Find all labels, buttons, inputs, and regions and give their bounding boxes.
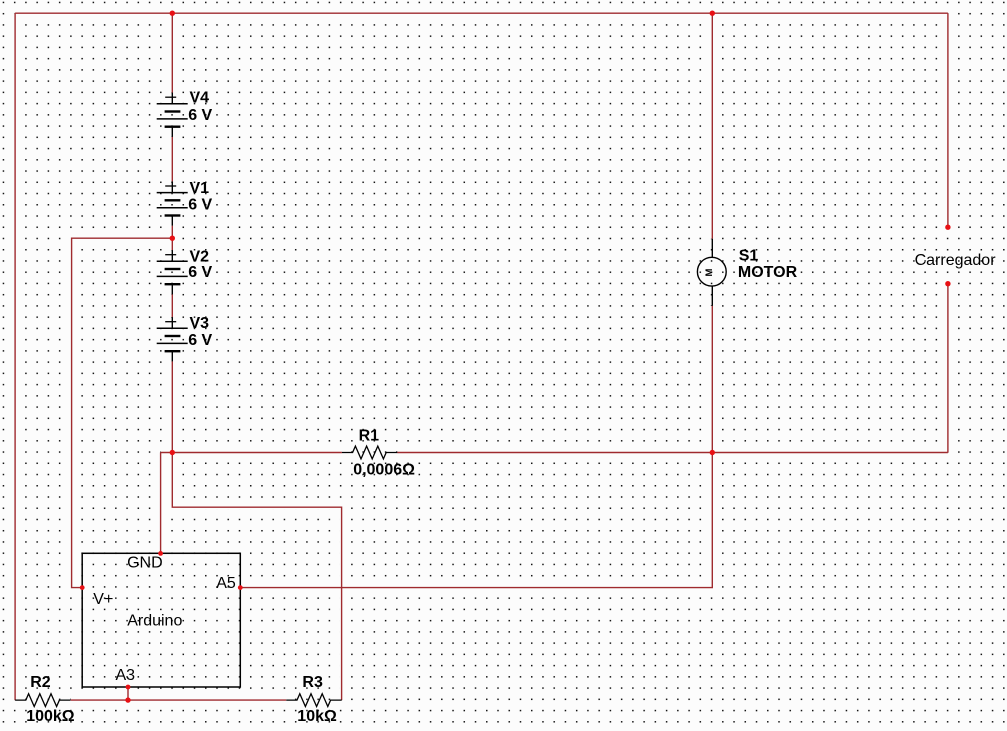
junction motor R1 rail <box>710 450 715 455</box>
svg-text:GND: GND <box>127 555 163 572</box>
junction V+ branch <box>170 236 175 241</box>
wire V1-junction <box>171 226 173 250</box>
wire bottom rail <box>71 699 287 701</box>
wire carregador top stub <box>947 13 949 227</box>
pin dot GND <box>158 551 163 556</box>
svg-text:10kΩ: 10kΩ <box>297 708 337 725</box>
pin dot A3 <box>126 685 131 690</box>
wire V4-V1 <box>171 137 173 182</box>
battery V3 symbol <box>157 317 188 361</box>
wire V+ branch <box>72 238 173 587</box>
junction A3 bottom rail <box>125 697 130 702</box>
motor S1 leads <box>711 239 713 306</box>
wire A5 to motor branch <box>240 453 712 588</box>
svg-text:V3: V3 <box>190 315 210 332</box>
svg-text:6 V: 6 V <box>188 264 212 281</box>
pin dot V+ <box>80 585 85 590</box>
resistor R3 <box>286 674 341 725</box>
wire R1 rail right <box>397 452 948 454</box>
Arduino U1 <box>82 553 240 687</box>
wire motor branch upper <box>711 13 713 239</box>
svg-text:6 V: 6 V <box>188 196 212 213</box>
wire V3-R1 junction <box>171 361 173 452</box>
svg-text:R3: R3 <box>302 674 323 691</box>
svg-text:M: M <box>704 268 715 276</box>
junction battery R1 rail <box>170 450 175 455</box>
motor S1 <box>697 239 797 306</box>
endpoint carregador bottom <box>945 281 950 286</box>
battery V4 <box>157 89 213 136</box>
junction top motor <box>710 11 715 16</box>
battery V1 <box>157 180 213 226</box>
wire A3 stub <box>127 687 129 700</box>
wire battery chain top <box>171 13 173 92</box>
svg-text:V1: V1 <box>190 180 210 197</box>
wire left rail <box>14 13 16 700</box>
wire top rail <box>15 12 948 14</box>
motor S1 circle <box>697 257 726 286</box>
svg-text:V4: V4 <box>190 89 210 106</box>
svg-text:6 V: 6 V <box>188 107 212 124</box>
wire junction to R3 right <box>172 453 341 701</box>
svg-text:6 V: 6 V <box>188 332 212 349</box>
resistor R2 <box>15 674 75 725</box>
svg-text:R1: R1 <box>359 428 380 445</box>
svg-text:Carregador: Carregador <box>915 252 997 269</box>
Arduino box <box>82 553 240 687</box>
wire R1 rail left <box>161 452 342 454</box>
wire V2-V3 <box>171 294 173 317</box>
svg-text:R2: R2 <box>30 674 51 691</box>
svg-text:Arduino: Arduino <box>127 613 182 630</box>
wire carregador bottom stub <box>947 284 949 453</box>
svg-text:MOTOR: MOTOR <box>738 264 798 281</box>
resistor R2 symbol <box>15 694 70 707</box>
resistor R1 <box>342 428 415 479</box>
svg-text:A3: A3 <box>116 667 136 684</box>
svg-text:100kΩ: 100kΩ <box>26 708 75 725</box>
svg-text:V+: V+ <box>93 591 113 608</box>
resistor R3 symbol <box>286 694 341 707</box>
wire motor branch lower <box>711 306 713 453</box>
battery V1 symbol <box>157 181 188 225</box>
resistor R1 symbol <box>342 446 397 459</box>
wire GND drop <box>160 453 162 554</box>
svg-text:A5: A5 <box>216 575 236 592</box>
battery V2 <box>157 249 213 295</box>
junction top battery <box>170 11 175 16</box>
svg-text:S1: S1 <box>739 248 759 265</box>
battery V3 <box>157 315 213 362</box>
svg-text:0,0006Ω: 0,0006Ω <box>353 462 415 479</box>
pin dot A5 <box>238 585 243 590</box>
battery V2 symbol <box>157 250 188 294</box>
endpoint carregador top <box>945 225 950 230</box>
battery V4 symbol <box>157 93 188 137</box>
